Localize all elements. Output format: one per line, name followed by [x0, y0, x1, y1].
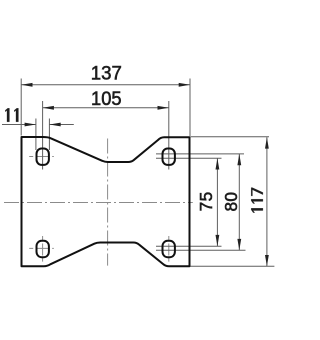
- svg-text:80: 80: [221, 192, 241, 212]
- svg-text:75: 75: [196, 191, 216, 211]
- svg-text:105: 105: [91, 89, 122, 110]
- svg-text:137: 137: [91, 64, 122, 85]
